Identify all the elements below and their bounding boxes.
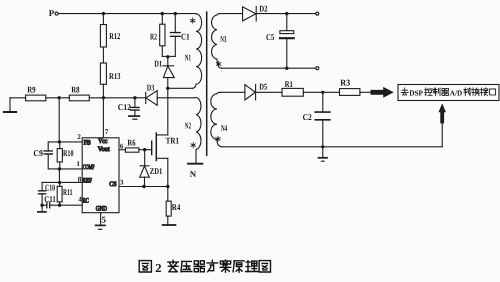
wire C1 top lead: [174, 14, 176, 33]
wire REF down to C10: [41, 182, 43, 190]
svg-text:Vcc: Vcc: [98, 138, 107, 145]
capacitor C11: [47, 202, 50, 208]
resistor R6: [125, 148, 138, 152]
svg-text:R13: R13: [109, 71, 121, 81]
junction C12 / D3: [133, 96, 136, 99]
wire Vcc rail to pin 7: [102, 98, 104, 138]
svg-text:P: P: [49, 8, 55, 18]
svg-text:RC: RC: [83, 197, 89, 204]
polarity mark N1: [191, 18, 195, 23]
svg-text:1: 1: [76, 160, 80, 168]
junction top rail / R12: [102, 12, 105, 15]
svg-text:R2: R2: [150, 32, 157, 42]
capacitor C2: [315, 112, 330, 120]
op-amp controller U1 (PWM IC) body: [82, 138, 119, 213]
wire R11 top lead: [59, 182, 61, 186]
svg-text:R4: R4: [172, 202, 181, 212]
wire R2 top lead: [161, 14, 163, 25]
transformer winding N1 (primary): [193, 14, 202, 89]
wire drain node to N1 bottom: [168, 87, 193, 89]
junction FB node: [58, 140, 61, 143]
svg-text:N: N: [190, 169, 197, 179]
diode D1: [163, 65, 174, 67]
wire R8 to D3 cathode: [89, 97, 145, 99]
svg-text:C2: C2: [303, 112, 313, 122]
svg-text:A/D: A/D: [450, 88, 463, 97]
wire left rail to R9: [10, 97, 26, 99]
wire riser to ground: [41, 205, 43, 211]
ground below C12: [129, 115, 140, 117]
svg-text:DSP: DSP: [409, 88, 423, 97]
diode D2: [243, 7, 256, 21]
resistor R2: [160, 24, 165, 46]
wire D5 to R1: [256, 91, 282, 93]
caption 图2 变压器方案原理图: [139, 260, 270, 275]
wire GND pin 5 lead: [100, 213, 102, 225]
junction source / R4: [166, 185, 169, 188]
svg-text:R6: R6: [127, 137, 136, 147]
resistor R3: [340, 89, 360, 96]
svg-text:7: 7: [105, 128, 109, 136]
svg-text:FB: FB: [84, 140, 92, 147]
diode D3: [145, 92, 147, 103]
wire riser to C11: [42, 204, 47, 206]
wire FB node to pin 2: [59, 141, 82, 143]
diode D5: [245, 85, 255, 100]
junction RC node: [58, 204, 61, 207]
svg-text:R8: R8: [71, 84, 80, 94]
svg-text:C11: C11: [44, 194, 56, 204]
svg-text:R1: R1: [285, 79, 293, 89]
svg-text:ZD1: ZD1: [150, 166, 163, 176]
svg-text:R3: R3: [340, 78, 351, 88]
wire COMP node to pin 1: [59, 168, 82, 170]
block: to DSP controller A/D interface: [398, 85, 499, 101]
svg-text:REF: REF: [83, 177, 93, 184]
wire gate node down to ZD1: [144, 150, 146, 166]
ground left network: [38, 211, 46, 213]
wire C11 to pin 4: [50, 204, 82, 206]
wire source down to CS rail: [167, 158, 169, 186]
svg-text:8: 8: [78, 175, 82, 183]
wire R11 bottom lead: [59, 202, 61, 205]
wire N3 bottom rail: [222, 67, 316, 69]
wire divider tap down to FB: [58, 98, 60, 142]
wire D2 cathode to output terminal: [256, 13, 316, 15]
wire Vout pin 6 to R6: [119, 149, 125, 151]
wire R10 top lead: [59, 142, 61, 149]
resistor R9: [26, 95, 46, 101]
wire R3 to arrow: [360, 91, 371, 93]
svg-text:C1: C1: [181, 32, 190, 42]
svg-text:N2: N2: [185, 120, 192, 130]
wire FB to C9 top: [48, 142, 59, 151]
wire C2 bottom lead: [322, 120, 324, 147]
resistor R10: [57, 149, 62, 162]
wire snubber join: [162, 55, 175, 57]
junction COMP node: [58, 167, 61, 170]
resistor R1: [282, 88, 303, 96]
junction C2 top: [321, 91, 324, 94]
wire R12 top lead: [102, 14, 104, 25]
svg-text:D2: D2: [259, 4, 268, 14]
capacitor C5 (electrolytic): [280, 31, 294, 34]
wire REF line to pin 8: [42, 181, 82, 183]
polarity mark N2: [191, 143, 195, 148]
wire R10 bottom lead: [59, 162, 61, 169]
transformer winding N2 (primary lower): [194, 97, 201, 163]
wire R4 top lead: [167, 187, 169, 202]
junction ZD1 anode / CS rail: [142, 185, 145, 188]
wire left terminal drop: [9, 98, 11, 112]
wire C9 bottom to COMP node: [48, 154, 59, 169]
svg-text:N3: N3: [220, 34, 227, 44]
wire C12 to ground: [134, 110, 136, 116]
wire C5 top lead: [286, 14, 288, 31]
svg-text:5: 5: [101, 215, 106, 225]
svg-text:C12: C12: [118, 102, 132, 112]
svg-text:CS: CS: [109, 181, 117, 188]
wire R9-R8: [46, 97, 70, 99]
resistor R4: [166, 201, 171, 216]
block text 去DSP控制器A/D转换接口: [401, 88, 408, 95]
wire drain up to D1 node: [167, 88, 169, 135]
zener diode ZD1: [140, 165, 149, 167]
resistor R8: [69, 95, 89, 101]
svg-text:R11: R11: [63, 187, 73, 197]
transformer winding N3 (secondary upper): [212, 14, 222, 69]
wire R4 bottom lead: [167, 216, 169, 225]
wire C10 to ground riser: [41, 194, 43, 205]
wire C5 bottom lead: [286, 39, 288, 68]
svg-text:2: 2: [155, 261, 162, 275]
wire COMP node down to REF line: [58, 169, 60, 183]
svg-text:2: 2: [77, 133, 81, 141]
svg-text:R12: R12: [109, 31, 120, 41]
capacitor C12 top lead: [134, 98, 136, 107]
wire snubber to D1 cathode: [167, 56, 169, 65]
arrow up into DSP block: [439, 103, 446, 123]
terminal P circle: [55, 12, 58, 15]
svg-text:COMP: COMP: [83, 164, 95, 171]
polarity mark N3: [217, 61, 221, 66]
wire N4 top to D5: [221, 91, 245, 93]
terminal circle output -: [316, 67, 319, 70]
wire bottom sense rail: [222, 146, 442, 148]
junction drain / N1 bottom: [166, 87, 169, 90]
junction top rail / C1: [174, 12, 177, 15]
transformer core: [206, 12, 208, 155]
svg-text:N4: N4: [221, 123, 228, 133]
terminal bar N (neutral): [188, 163, 202, 165]
junction REF / R11: [58, 181, 61, 184]
junction C5 top: [285, 12, 288, 15]
svg-text:Vout: Vout: [98, 146, 110, 153]
svg-text:D1: D1: [154, 58, 162, 68]
ground below C2: [319, 157, 328, 159]
junction snubber / D1: [166, 55, 169, 58]
transistor TR1 (MOSFET): [151, 141, 153, 154]
wire N3 top to D2: [221, 13, 243, 15]
svg-text:C5: C5: [266, 32, 275, 42]
svg-text:GND: GND: [96, 206, 107, 213]
wire C2 top lead: [322, 92, 324, 111]
arrow to DSP interface: [371, 87, 394, 98]
junction ground riser / C11: [40, 204, 43, 207]
polarity mark N4: [216, 136, 220, 141]
wire R2 bottom lead: [161, 46, 163, 57]
junction FB divider tap: [58, 96, 61, 99]
junction gate / ZD1: [143, 148, 146, 151]
wire D1 anode to drain node: [167, 78, 169, 89]
svg-text:TR1: TR1: [166, 136, 180, 146]
svg-text:C10: C10: [45, 182, 55, 192]
junction Vcc rail / R13: [102, 96, 105, 99]
wire C1 bottom lead: [174, 36, 176, 56]
junction ground / C2 bottom: [321, 145, 324, 148]
capacitor C9: [44, 151, 52, 154]
transformer winding N4 (secondary lower): [211, 92, 222, 147]
capacitor C10: [39, 191, 46, 194]
wire to signal ground: [322, 147, 324, 158]
junction top rail / R2: [161, 12, 164, 15]
resistor R11: [57, 186, 62, 202]
wire R1 to R3: [303, 91, 339, 93]
terminal circle output +: [316, 12, 319, 15]
wire CS pin 3 rail: [119, 186, 168, 188]
wire sense return riser: [441, 123, 443, 146]
ground below U1: [96, 224, 105, 226]
resistor R12: [100, 25, 106, 48]
svg-text:R10: R10: [63, 148, 74, 158]
svg-text:R9: R9: [27, 84, 36, 94]
wire R6 to gate: [139, 149, 151, 151]
wire R13 bottom lead: [102, 84, 104, 98]
wire top rail from P to N1: [58, 13, 196, 15]
svg-text:D5: D5: [259, 82, 267, 92]
terminal bar below R4: [163, 224, 176, 226]
svg-text:N1: N1: [185, 52, 191, 62]
svg-text:D3: D3: [147, 82, 155, 92]
wire R12-R13: [102, 47, 104, 63]
resistor R13: [100, 63, 106, 84]
svg-text:3: 3: [120, 178, 124, 186]
capacitor C1: [171, 33, 181, 37]
terminal bar left input: [4, 111, 16, 113]
junction C5 bottom: [285, 67, 288, 70]
capacitor C12: [131, 107, 139, 110]
wire D3 anode to N2 top: [157, 97, 194, 99]
svg-text:C9: C9: [33, 148, 43, 158]
